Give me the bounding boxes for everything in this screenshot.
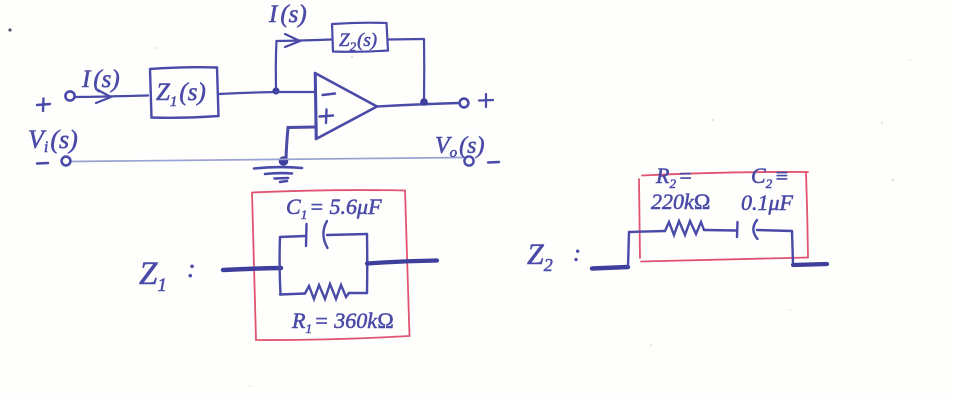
impedance block Z2(s): [332, 23, 388, 52]
svg-text:I(s): I(s): [268, 1, 307, 28]
op-amp U1 triangle: [315, 73, 377, 139]
wire: Z1 left lead: [223, 268, 281, 270]
wire: input to Z1 with current arrow: [76, 89, 149, 103]
svg-text:I(s): I(s): [81, 66, 120, 93]
op-amp inverting (-) mark: [323, 94, 336, 96]
wire: Z1 parallel left vertical: [278, 237, 281, 295]
wire: feedback riser up from node: [275, 41, 278, 88]
node: bottom-right - polarity mark: [488, 161, 499, 164]
impedance block Z1(s): [150, 67, 219, 118]
node: output + polarity mark: [479, 94, 493, 107]
resistor R2: [629, 221, 736, 235]
wire: Z1 right lead: [367, 261, 437, 264]
node dot: output junction: [420, 98, 428, 106]
op-amp non-inverting (+) mark: [320, 110, 334, 124]
node dot: inverting input junction: [272, 87, 279, 94]
wire: feedback drop to output node: [423, 39, 425, 101]
ground symbol: [254, 167, 302, 182]
wire: Z2 left lead: [592, 267, 628, 269]
wire: Z2 right lead: [793, 264, 827, 265]
wire: bottom return rail: [71, 158, 463, 162]
svg-text:Vo(s): Vo(s): [435, 133, 485, 161]
node: bottom-left terminal circle: [62, 157, 71, 166]
svg-text:Z2(s): Z2(s): [339, 30, 377, 54]
svg-text::: :: [573, 241, 581, 267]
stray pen dot top-left: [8, 28, 11, 31]
svg-text:Vi(s): Vi(s): [28, 125, 78, 156]
node: input + terminal polarity mark: [37, 99, 50, 112]
node dot: ground junction: [279, 156, 289, 166]
wire: feedback top run with arrow to Z2: [277, 34, 332, 47]
node: output terminal circle: [460, 99, 469, 108]
faint paper speckles: [39, 47, 911, 387]
svg-text:C1= 5.6μF: C1= 5.6μF: [286, 194, 382, 222]
wire: op-amp output: [377, 103, 459, 107]
wire: non-inverting input to ground: [286, 127, 315, 159]
svg-text::: :: [187, 254, 196, 283]
wire: node to op-amp inverting input: [276, 91, 314, 93]
node: bottom-right terminal circle: [464, 156, 473, 165]
capacitor C2: [737, 220, 792, 239]
node: input terminal circle: [65, 91, 74, 100]
svg-text:0.1μF: 0.1μF: [741, 190, 794, 215]
capacitor C1 (top branch): [280, 221, 367, 248]
wire: Z1 parallel right vertical: [366, 234, 369, 293]
node: bottom-left - polarity mark: [37, 162, 48, 165]
wire: Z2 left riser: [628, 232, 629, 267]
wire: Z2 right drop: [792, 231, 793, 264]
red annotation box around Z1 detail: [252, 190, 410, 340]
svg-text:Z1(s): Z1(s): [156, 79, 206, 110]
wire: Z1 to inverting node: [219, 92, 276, 94]
wire: Z2 to output drop: [388, 38, 424, 41]
red annotation box around Z2 detail: [639, 172, 808, 262]
svg-text:220kΩ: 220kΩ: [651, 189, 711, 214]
resistor R1 (bottom branch): [280, 284, 367, 299]
